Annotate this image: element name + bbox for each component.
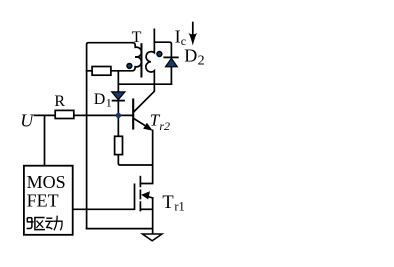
svg-text:R: R <box>54 93 65 110</box>
svg-text:2: 2 <box>198 54 205 69</box>
svg-text:D: D <box>184 45 197 65</box>
svg-text:T: T <box>132 29 142 46</box>
svg-text:U: U <box>20 110 34 130</box>
svg-text:1: 1 <box>106 96 112 110</box>
svg-text:T: T <box>162 193 173 213</box>
svg-text:r2: r2 <box>159 119 170 133</box>
svg-text:r1: r1 <box>174 199 184 213</box>
svg-text:FET: FET <box>27 190 59 210</box>
svg-text:D: D <box>94 91 106 108</box>
svg-text:I: I <box>175 27 181 47</box>
svg-text:MOS: MOS <box>27 172 66 192</box>
